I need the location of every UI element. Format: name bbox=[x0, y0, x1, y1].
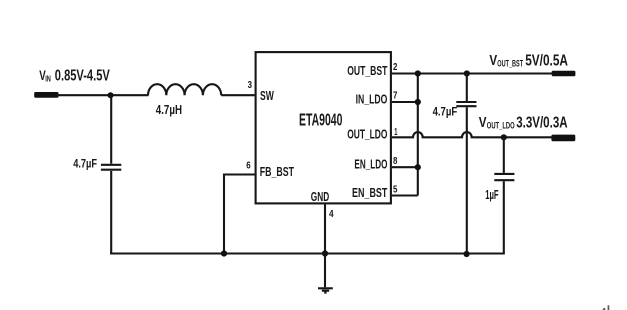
junction: pin 8 / bus bbox=[415, 164, 421, 170]
capacitor C2 4.7uF on OUT_BST bbox=[456, 74, 476, 254]
junction: pin 7 / bus bbox=[415, 99, 421, 105]
svg-text:5: 5 bbox=[393, 184, 398, 196]
svg-text:4.7µF: 4.7µF bbox=[433, 105, 458, 119]
svg-text:1: 1 bbox=[394, 126, 397, 138]
svg-text:EN_LDO: EN_LDO bbox=[354, 156, 387, 171]
wire: VIN terminal to inductor L1 bbox=[57, 94, 149, 96]
svg-text:OUT_BST: OUT_BST bbox=[347, 63, 387, 78]
svg-text:7: 7 bbox=[393, 89, 398, 101]
svg-text:OUT_LDO: OUT_LDO bbox=[347, 127, 387, 142]
junction: OUT_BST / C2 bbox=[464, 70, 470, 76]
svg-text:FB_BST: FB_BST bbox=[260, 164, 294, 179]
IC U1 ETA9040 body bbox=[256, 52, 391, 203]
svg-text:ETA9040: ETA9040 bbox=[299, 110, 342, 130]
svg-text:EN_BST: EN_BST bbox=[352, 185, 387, 200]
junction: GND / rail bbox=[322, 250, 328, 256]
svg-text:GND: GND bbox=[311, 189, 330, 204]
watermark fragment bottom right bbox=[603, 305, 610, 310]
junction: VIN / CIN node bbox=[108, 92, 114, 98]
ground symbol bbox=[318, 254, 333, 293]
svg-text:5V/0.5A: 5V/0.5A bbox=[525, 52, 568, 69]
junction: OUT_LDO / C3 bbox=[501, 134, 507, 140]
svg-text:0.85V-4.5V: 0.85V-4.5V bbox=[55, 68, 110, 85]
svg-text:V: V bbox=[479, 114, 487, 131]
svg-text:2: 2 bbox=[393, 61, 398, 73]
svg-text:SW: SW bbox=[260, 88, 274, 103]
wire: EN_LDO pin 8 stub bbox=[392, 166, 418, 168]
svg-text:4: 4 bbox=[329, 208, 334, 220]
svg-text:V: V bbox=[489, 52, 497, 69]
svg-text:3: 3 bbox=[248, 79, 253, 91]
svg-text:4.7µF: 4.7µF bbox=[73, 157, 97, 171]
wire: vertical bus OUT_BST to EN_BST bbox=[417, 74, 419, 196]
svg-text:IN_LDO: IN_LDO bbox=[356, 91, 388, 106]
wire: IN_LDO pin 7 stub bbox=[392, 101, 418, 103]
svg-text:4.7µH: 4.7µH bbox=[156, 102, 182, 117]
wire: GND pin 4 to rail bbox=[324, 205, 326, 254]
output terminal VOUT_LDO bbox=[551, 135, 575, 142]
inductor L1 bbox=[148, 84, 221, 95]
svg-text:OUT_LDO: OUT_LDO bbox=[487, 121, 515, 131]
junction: FB_BST / rail bbox=[221, 250, 227, 256]
capacitor C3 1uF on OUT_LDO bbox=[494, 137, 514, 253]
output terminal VOUT_BST bbox=[552, 71, 576, 76]
junction: C2 / rail bbox=[464, 251, 470, 257]
wire: inductor L1 to pin 3 SW bbox=[221, 94, 254, 96]
wire: EN_BST pin 5 stub bbox=[392, 194, 418, 196]
wire: OUT_BST pin 2 to VOUT_BST terminal bbox=[392, 72, 552, 74]
net label VOUT_LDO 3.3V/0.3A bbox=[479, 114, 568, 131]
junction: pin 2 / bus bbox=[415, 70, 421, 76]
ground rail wire bbox=[110, 252, 505, 254]
net label VOUT_BST 5V/0.5A bbox=[489, 52, 568, 69]
svg-text:1µF: 1µF bbox=[485, 187, 498, 202]
wire: FB_BST pin 6 to ground rail bbox=[224, 175, 255, 254]
net label VIN 0.85V-4.5V bbox=[39, 68, 110, 85]
capacitor CIN 4.7uF bbox=[101, 95, 121, 253]
wire: OUT_LDO pin 1 to VOUT_LDO terminal with hops bbox=[392, 132, 552, 137]
svg-text:6: 6 bbox=[246, 160, 251, 172]
input terminal VIN bbox=[34, 92, 58, 98]
svg-text:3.3V/0.3A: 3.3V/0.3A bbox=[516, 114, 567, 131]
svg-text:OUT_BST: OUT_BST bbox=[497, 58, 523, 68]
svg-text:IN: IN bbox=[45, 74, 51, 83]
svg-text:8: 8 bbox=[393, 155, 398, 167]
